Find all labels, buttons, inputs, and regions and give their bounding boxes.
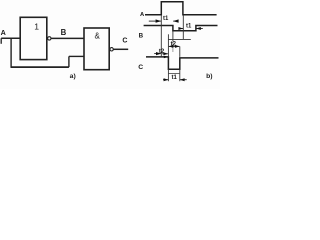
svg-text:t1: t1 (163, 16, 169, 22)
marker line at A rise (160, 15, 162, 57)
svg-text:t2: t2 (159, 49, 165, 55)
marker line below C rise (179, 69, 181, 81)
wire inverter output to node B (51, 37, 84, 39)
marker line above C rise (179, 46, 181, 57)
waveform A trace (145, 2, 217, 15)
svg-text:A: A (1, 28, 6, 37)
dimension t2 second: line with arrows (169, 45, 180, 47)
dimension t1 bottom: left tail and arrow (163, 79, 168, 81)
inverter U1 output bubble (48, 37, 51, 40)
svg-text:C: C (122, 37, 127, 44)
waveform B trace (144, 26, 218, 31)
dimension t1 second: right arrow and tail (196, 28, 203, 30)
svg-text:C: C (138, 64, 143, 71)
dimension t1 bottom: connector line (168, 72, 179, 74)
dimension t2 first: arrow on C line (164, 56, 168, 59)
marker line at C fall extension up (167, 34, 169, 57)
dimension t1 first: right arrow and tail (173, 20, 178, 22)
nand-gate U2 output bubble (110, 48, 113, 51)
wire junction drop from A (10, 38, 12, 67)
wire input start tick (0, 38, 2, 44)
wire output to node C (114, 48, 129, 50)
marker line below C fall (167, 69, 169, 81)
wire bottom run (11, 66, 69, 68)
marker line B fall faint lower extension (172, 41, 174, 52)
svg-text:t1: t1 (172, 75, 178, 81)
dimension t1 second: left arrow (180, 28, 184, 30)
svg-text:1: 1 (34, 22, 39, 32)
dimension t1 bottom: right arrow and tail (180, 79, 187, 81)
svg-text:&: & (95, 32, 101, 41)
wire riser to gate input (68, 56, 70, 67)
svg-text:B: B (61, 28, 67, 37)
svg-text:t1: t1 (186, 23, 192, 29)
wire second input to AND gate (69, 55, 84, 57)
waveform C trace (146, 57, 219, 69)
nand-gate U2 box (84, 28, 109, 70)
marker line at A fall (182, 15, 184, 39)
svg-text:a): a) (70, 73, 76, 80)
svg-text:B: B (139, 33, 144, 40)
svg-text:b): b) (206, 73, 212, 80)
inverter U1 box (20, 17, 47, 59)
marker bar horizontal (168, 38, 190, 40)
dimension t1 first: left tail and arrow (149, 20, 161, 22)
wire A input (1, 37, 20, 39)
dimension t2 first: tail and arrow at marker (154, 53, 161, 55)
svg-text:t2: t2 (171, 41, 177, 47)
marker line at B fall extension (172, 31, 174, 42)
